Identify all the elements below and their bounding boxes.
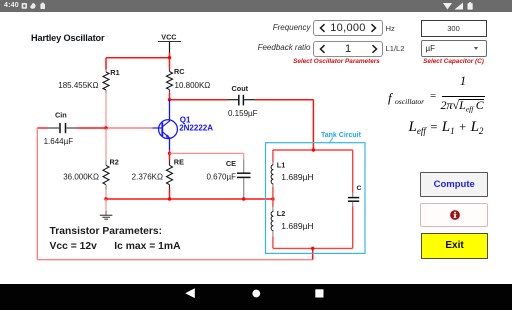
- navigation bar: [0, 284, 512, 310]
- node R2 ground junction: [104, 197, 107, 200]
- node RE ground junction: [168, 197, 171, 200]
- nav back: [184, 288, 196, 299]
- capacitor Cout: [228, 95, 256, 106]
- svg-text:2.376KΩ: 2.376KΩ: [132, 173, 163, 182]
- unit Hz: [386, 24, 395, 33]
- wire tank left upper: [272, 150, 274, 165]
- wire RE bottom lead: [169, 185, 171, 199]
- status bar right icons: [436, 0, 512, 12]
- svg-text:L2: L2: [277, 209, 286, 218]
- svg-text:R1: R1: [110, 68, 119, 77]
- node tank top junction: [312, 148, 315, 151]
- wire tank right lower: [352, 206, 354, 248]
- wire R2 top lead: [105, 128, 107, 165]
- status bar: [0, 0, 512, 12]
- wire tank left lower: [272, 231, 274, 248]
- unit L1/L2: [386, 44, 405, 53]
- wire tank loop bottom: [273, 247, 353, 249]
- node CE ground junction: [242, 197, 245, 200]
- capacitor unit dropdown: [421, 40, 487, 57]
- svg-text:1.689µH: 1.689µH: [281, 221, 313, 231]
- wire Cin to base node: [77, 127, 106, 129]
- wire tank right upper: [352, 150, 354, 193]
- transistor Q1: [159, 120, 178, 139]
- caption select oscillator parameters: [270, 58, 404, 65]
- transistor parameters note: [50, 227, 163, 238]
- node tank bottom junction: [311, 247, 314, 250]
- caption select capacitor: [400, 58, 507, 65]
- wire ground rail: [106, 198, 273, 200]
- inductor L2: [271, 211, 273, 230]
- wire RC bottom lead: [169, 90, 171, 100]
- wire feedback loop riser: [312, 248, 314, 259]
- wire emitter blue: [169, 137, 171, 150]
- wire R2 bottom lead: [105, 185, 107, 199]
- resistor R1: [103, 72, 109, 90]
- svg-text:2N2222A: 2N2222A: [179, 124, 213, 133]
- wire tank loop top: [273, 149, 353, 151]
- svg-text:36.000KΩ: 36.000KΩ: [63, 173, 99, 182]
- svg-text:RC: RC: [174, 67, 185, 76]
- svg-text:CE: CE: [226, 159, 236, 168]
- node tank tap junction: [271, 197, 274, 200]
- svg-text:Cout: Cout: [232, 84, 249, 93]
- svg-text:Tank Circuit: Tank Circuit: [321, 132, 362, 139]
- node collector junction: [168, 98, 171, 101]
- tank circuit enclosure: [266, 132, 366, 253]
- feedback ratio label: [200, 43, 311, 52]
- button Compute: [420, 172, 488, 197]
- svg-text:0.159µF: 0.159µF: [228, 109, 258, 118]
- wire feedback loop left: [36, 128, 38, 260]
- node base junction: [104, 126, 107, 129]
- capacitor C: [348, 193, 359, 207]
- node VCC junction: [168, 56, 171, 59]
- wire top rail to R1: [106, 57, 170, 59]
- button Exit: [421, 233, 489, 258]
- wire base: [106, 127, 153, 129]
- svg-text:1.689µH: 1.689µH: [281, 172, 313, 182]
- resistor RE: [167, 165, 173, 184]
- status bar clock: [4, 0, 19, 12]
- frequency label: [200, 23, 311, 32]
- wire VCC to node: [169, 53, 171, 58]
- wire RE top lead: [169, 153, 171, 165]
- status bar left icons: [0, 0, 60, 12]
- svg-text:C: C: [357, 185, 362, 192]
- svg-text:VCC: VCC: [161, 33, 176, 42]
- app title: [31, 33, 104, 43]
- svg-text:185.455KΩ: 185.455KΩ: [58, 81, 98, 90]
- wire Cout to tank: [255, 100, 313, 150]
- frequency spinner: [313, 20, 383, 36]
- nav recents: [315, 289, 324, 298]
- capacitor CE: [237, 160, 251, 200]
- formula effective inductance: [409, 119, 484, 136]
- wire feedback loop bottom: [37, 259, 312, 261]
- nav home: [251, 288, 262, 299]
- svg-text:0.670µF: 0.670µF: [206, 173, 236, 182]
- svg-text:10.800KΩ: 10.800KΩ: [175, 81, 211, 90]
- wire R1 top lead: [105, 58, 107, 72]
- wire feedback to Cin: [37, 127, 48, 129]
- svg-text:1.644µF: 1.644µF: [44, 137, 74, 146]
- svg-text:RE: RE: [174, 158, 184, 167]
- wire emitter to CE: [170, 153, 244, 159]
- formula oscillator frequency: [388, 74, 488, 114]
- svg-text:Cin: Cin: [55, 111, 67, 120]
- info icon: [450, 210, 460, 220]
- wire collector blue: [169, 100, 171, 122]
- button info: [420, 203, 488, 227]
- capacitor Cin: [48, 123, 77, 133]
- inductor L1: [271, 165, 273, 184]
- node emitter junction: [168, 152, 171, 155]
- wire collector to Cout: [170, 99, 228, 101]
- resistor RC: [167, 72, 173, 90]
- svg-text:L1: L1: [277, 160, 286, 169]
- svg-text:R2: R2: [110, 158, 119, 167]
- power symbol VCC: [158, 33, 181, 53]
- wire RC top lead: [169, 58, 171, 72]
- wire tank left middle: [272, 184, 274, 211]
- ground: [100, 199, 113, 219]
- feedback spinner: [313, 41, 383, 57]
- wire R1 bottom lead: [105, 90, 107, 128]
- resistor R2: [103, 165, 109, 184]
- capacitance input: [421, 20, 487, 38]
